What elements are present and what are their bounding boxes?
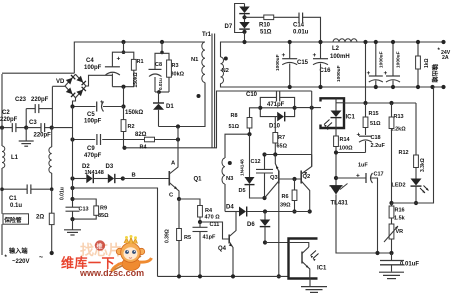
wire sense drop [365, 42, 367, 103]
svg-text:C11: C11 [210, 222, 220, 228]
svg-text:D6: D6 [247, 222, 255, 228]
node R14 bottom [334, 150, 338, 154]
node bridge bottom [70, 104, 74, 108]
opto IC1 phototransistor [289, 243, 309, 248]
node D7 mid [242, 15, 246, 19]
svg-text:150kΩ: 150kΩ [133, 72, 139, 87]
svg-text:+: + [282, 52, 286, 59]
node N3 phase dot [228, 161, 232, 165]
wire C18 bottom [336, 152, 366, 154]
wire sense return [392, 87, 434, 203]
svg-text:维: 维 [97, 243, 103, 251]
svg-text:~220V: ~220V [12, 259, 30, 265]
wire emitter rail [311, 91, 313, 167]
svg-text:1.5k: 1.5k [394, 216, 406, 222]
wire bridge bottom rail [72, 107, 74, 205]
wire D1 bottom to N1 [159, 83, 206, 127]
node C10 right [293, 106, 297, 110]
svg-text:30kΩ: 30kΩ [171, 72, 185, 78]
svg-text:100mH: 100mH [330, 54, 350, 60]
svg-text:2A: 2A [442, 55, 449, 61]
svg-text:51Ω: 51Ω [260, 30, 272, 36]
svg-text:C15: C15 [297, 60, 309, 66]
node D4 cathode [263, 209, 267, 213]
svg-text:Q3: Q3 [270, 175, 279, 181]
svg-text:~: ~ [39, 255, 43, 262]
wire to opto LED [295, 107, 321, 109]
svg-text:51Ω: 51Ω [370, 121, 381, 127]
svg-text:B: B [132, 173, 136, 179]
node Q2 collector [308, 209, 312, 213]
svg-text:C10: C10 [246, 92, 258, 98]
svg-text:100Ω: 100Ω [339, 146, 353, 152]
node C8 loop bottom [157, 90, 161, 94]
svg-text:VR: VR [396, 229, 404, 235]
svg-text:0.01u: 0.01u [158, 78, 163, 90]
inductor L1 winding B [51, 128, 53, 147]
svg-text:1000uF: 1000uF [275, 54, 281, 71]
svg-text:C2: C2 [2, 110, 10, 116]
svg-text:C17: C17 [374, 172, 384, 178]
wire C10 node link [260, 107, 294, 109]
svg-text:Tr1: Tr1 [202, 32, 212, 38]
svg-text:输出端: 输出端 [431, 64, 439, 83]
svg-text:0.01u: 0.01u [293, 30, 309, 36]
wire reg top [344, 102, 416, 104]
wire emitter return bus [158, 275, 289, 277]
wire aux feed [217, 91, 312, 148]
svg-text:D7: D7 [225, 24, 233, 30]
wire to opto transistor [265, 242, 289, 244]
svg-text:TL431: TL431 [331, 201, 349, 207]
svg-text:Q1: Q1 [194, 177, 203, 183]
node C1 right [50, 187, 54, 191]
svg-text:C: C [169, 193, 174, 199]
svg-text:R4: R4 [140, 145, 148, 151]
svg-text:0.1u: 0.1u [10, 203, 22, 209]
opto IC1 transistor box [289, 239, 318, 279]
node D2 anode [70, 176, 74, 180]
wire Q3 bar down [278, 184, 280, 277]
svg-text:R6: R6 [282, 194, 289, 200]
svg-text:+: + [313, 52, 317, 59]
svg-text:220pF: 220pF [34, 133, 52, 139]
wire TL431 anode [336, 195, 392, 254]
svg-text:220pF: 220pF [0, 117, 18, 123]
svg-text:R14: R14 [340, 137, 351, 143]
transistor Q1 [123, 178, 169, 180]
svg-text:C3: C3 [29, 120, 37, 126]
svg-text:3.3kΩ: 3.3kΩ [420, 158, 426, 172]
svg-text:C14: C14 [293, 23, 305, 29]
svg-text:C18: C18 [371, 135, 381, 141]
ground right [379, 271, 404, 273]
node C4 loop bottom [121, 85, 125, 89]
svg-text:1000uF: 1000uF [396, 51, 402, 68]
svg-text:*: * [5, 255, 8, 261]
wire base link [279, 178, 301, 180]
svg-text:D4: D4 [226, 205, 234, 211]
ground opto [309, 279, 311, 287]
svg-text:R16: R16 [395, 208, 405, 214]
svg-text:N1: N1 [191, 57, 199, 63]
wire bridge right arm [86, 75, 112, 86]
svg-text:R15: R15 [369, 111, 379, 117]
node N2 phase dot [224, 57, 228, 61]
svg-text:R3: R3 [172, 63, 179, 69]
svg-text:100pF: 100pF [84, 65, 102, 71]
svg-text:C16: C16 [320, 68, 332, 74]
opto IC1 led box [321, 98, 345, 128]
wire bridge left arm [52, 85, 65, 87]
svg-text:D1: D1 [166, 104, 174, 110]
node Q3 collector [262, 196, 266, 200]
resistor R2 150k [121, 104, 125, 108]
svg-text:R2: R2 [128, 124, 135, 130]
svg-text:D5: D5 [239, 188, 246, 194]
svg-text:65Ω: 65Ω [277, 144, 288, 150]
svg-text:51Ω: 51Ω [229, 124, 240, 130]
node C3 right [50, 126, 54, 130]
node bus-C8 [160, 40, 164, 44]
svg-text:输入端: 输入端 [9, 247, 28, 255]
svg-text:LED2: LED2 [392, 183, 406, 189]
node N1 phase dot [197, 94, 201, 98]
svg-text:2Ω: 2Ω [36, 215, 44, 221]
svg-text:150kΩ: 150kΩ [125, 110, 143, 116]
node C2-C3 [24, 126, 28, 130]
node R7 bottom [273, 152, 277, 156]
wire C23 right drop [51, 87, 53, 128]
node R2 bottom [122, 146, 126, 150]
node C13 top [70, 197, 74, 201]
node D7 bottom [242, 30, 246, 34]
wire led anode [336, 102, 344, 104]
node R5 bus [177, 274, 181, 278]
wire mains top [2, 72, 74, 74]
svg-text:C5: C5 [87, 112, 95, 118]
svg-text:A: A [171, 161, 176, 167]
svg-text:0.39Ω: 0.39Ω [165, 229, 171, 243]
svg-text:1kΩ: 1kΩ [424, 58, 430, 68]
svg-text:Q2: Q2 [303, 174, 311, 180]
node bus-C4 [121, 40, 125, 44]
svg-text:220pF: 220pF [31, 97, 49, 103]
svg-text:C9: C9 [87, 146, 95, 152]
svg-text:470 Ω: 470 Ω [205, 215, 221, 221]
svg-text:R5: R5 [184, 235, 191, 241]
svg-text:R12: R12 [399, 150, 409, 156]
node base R6 [292, 177, 296, 181]
svg-text:C4: C4 [86, 58, 94, 64]
svg-text:L1: L1 [11, 155, 19, 161]
svg-text:C12: C12 [251, 159, 261, 165]
svg-text:IC1: IC1 [317, 266, 327, 272]
ground under C23 node [25, 128, 27, 141]
svg-text:1000uF: 1000uF [336, 65, 342, 82]
svg-text:C8: C8 [155, 62, 162, 68]
wire bridge bottom lead [73, 98, 76, 107]
svg-text:L2: L2 [332, 46, 340, 52]
svg-text:+: + [117, 56, 121, 63]
node R8 bottom [247, 132, 251, 136]
node collector top [176, 124, 180, 128]
node C10 left [258, 106, 262, 110]
node C11 bus [198, 274, 202, 278]
node C1 left [0, 187, 4, 191]
opto IC1 led [335, 98, 337, 110]
node divider mid [389, 201, 393, 205]
svg-text:IC1: IC1 [346, 115, 356, 121]
wire C3 to bridge line [52, 127, 73, 129]
node 82ohm right [176, 137, 180, 141]
transformer core [211, 34, 213, 148]
node C12 top [262, 152, 266, 156]
node Q1 emitter [177, 197, 181, 201]
svg-text:VD: VD [56, 79, 65, 85]
svg-text:R13: R13 [394, 114, 404, 120]
svg-text:470pF: 470pF [84, 153, 102, 159]
wire return lower [73, 188, 158, 276]
svg-text:R8: R8 [231, 113, 238, 119]
svg-text:1uF: 1uF [358, 163, 368, 169]
node emitter rail top [310, 106, 314, 110]
node C17 left [334, 176, 338, 180]
svg-text:39Ω: 39Ω [280, 203, 291, 209]
node C13 bottom [70, 217, 74, 221]
svg-text:R10: R10 [259, 23, 271, 29]
svg-text:1N4148: 1N4148 [240, 159, 246, 176]
svg-text:100pF: 100pF [84, 119, 102, 125]
svg-text:保险管: 保险管 [3, 216, 22, 224]
watermark mascot [112, 235, 152, 271]
node R6 bottom [292, 209, 296, 213]
svg-text:85Ω: 85Ω [98, 213, 109, 219]
node LED2 bottom [414, 201, 418, 205]
svg-text:R4: R4 [205, 208, 213, 214]
svg-text:C13: C13 [79, 207, 89, 213]
ground left [72, 219, 74, 229]
svg-text:0.01u: 0.01u [60, 187, 66, 200]
svg-text:C1: C1 [9, 196, 17, 202]
node Q4 emitter bus [231, 274, 235, 278]
svg-text:R1: R1 [137, 59, 144, 65]
svg-text:D3: D3 [106, 164, 114, 170]
node R4 bottom [198, 220, 202, 224]
wire top bus left [74, 42, 205, 73]
fuse label box [1, 189, 3, 214]
wire mains left terminal [1, 224, 3, 255]
node D3 cathode [121, 176, 125, 180]
svg-text:C23: C23 [15, 97, 27, 103]
node VR bottom [389, 251, 393, 255]
svg-text:N3: N3 [226, 176, 234, 182]
node mains left C2 [0, 126, 4, 130]
svg-text:41pF: 41pF [203, 235, 216, 241]
wire base drive to core [125, 147, 218, 149]
svg-text:1000uF: 1000uF [379, 51, 385, 68]
node C9 left [70, 137, 74, 141]
svg-text:R9: R9 [100, 206, 107, 212]
output terminal [441, 40, 445, 44]
wire emitter bus [265, 154, 312, 156]
svg-text:+: + [357, 132, 361, 139]
node Q3 bar bus [277, 274, 281, 278]
node D7 bus [242, 40, 246, 44]
svg-text:+: + [100, 100, 104, 106]
svg-text:471pF: 471pF [267, 102, 285, 108]
svg-text:R7: R7 [278, 135, 285, 141]
node D6 bottom [263, 240, 267, 244]
node mains right terminal [50, 251, 54, 255]
node return left [70, 186, 74, 190]
svg-text:2.2uF: 2.2uF [371, 143, 386, 149]
svg-text:Q4: Q4 [218, 246, 227, 252]
